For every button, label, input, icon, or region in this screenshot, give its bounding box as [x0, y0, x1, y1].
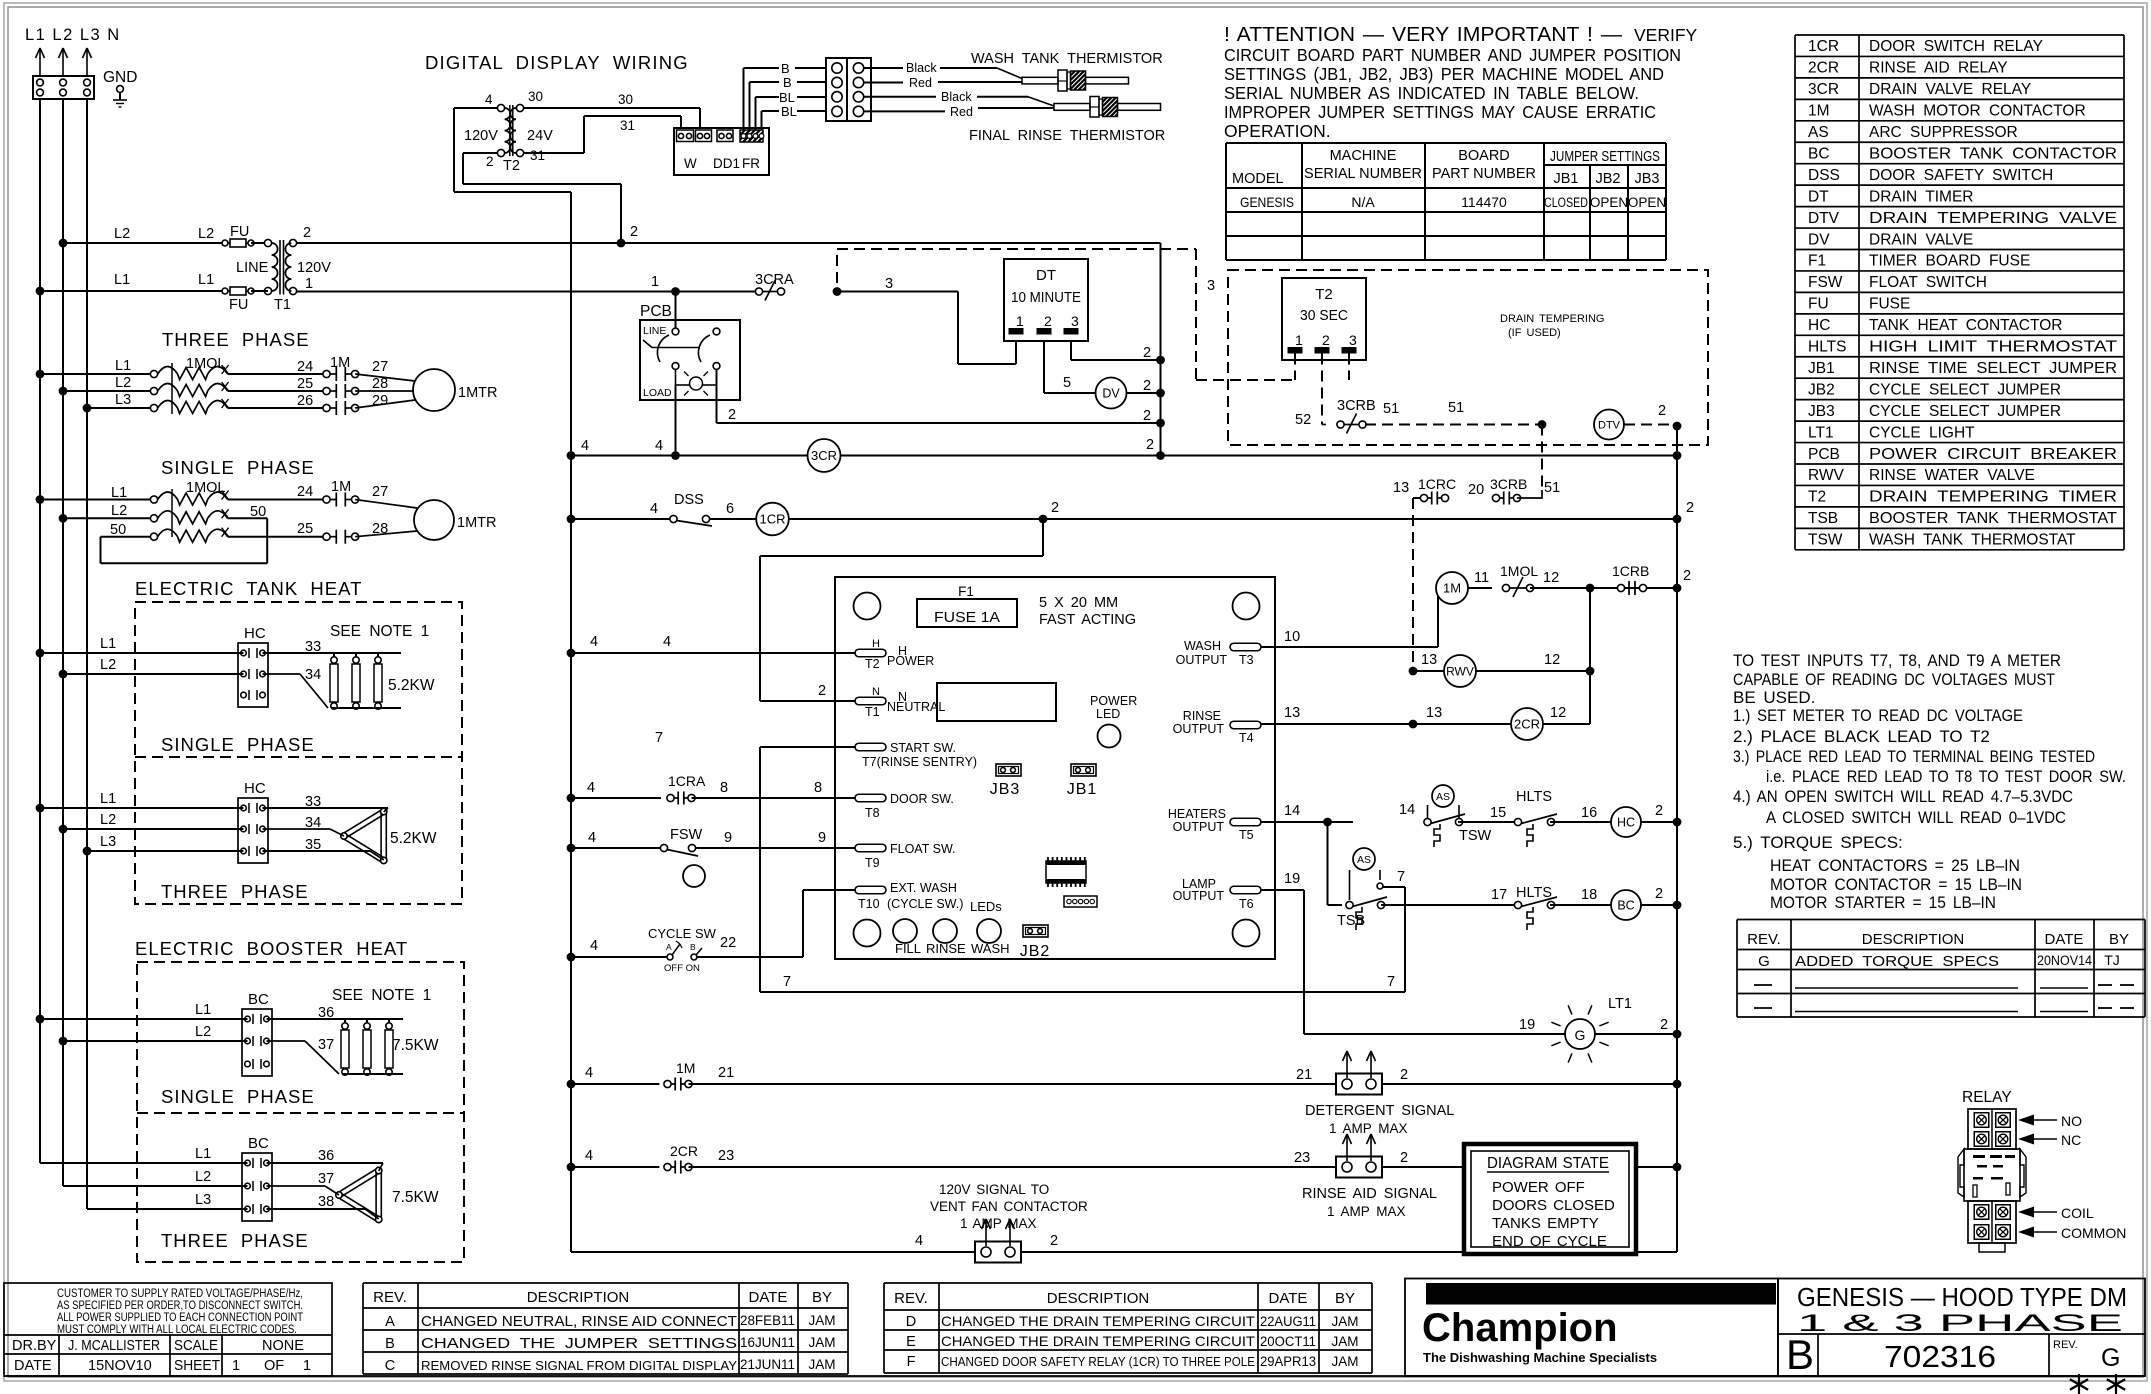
- svg-text:JB3: JB3: [1635, 171, 1660, 187]
- svg-text:AS: AS: [1357, 854, 1371, 866]
- svg-text:T2: T2: [1315, 286, 1333, 303]
- svg-text:J. MCALLISTER: J. MCALLISTER: [68, 1338, 160, 1354]
- svg-text:2CR: 2CR: [670, 1143, 698, 1159]
- svg-text:3: 3: [1207, 278, 1215, 294]
- svg-text:31: 31: [620, 118, 635, 133]
- svg-text:BY: BY: [1335, 1290, 1355, 1307]
- svg-text:OFF ON: OFF ON: [664, 963, 700, 974]
- svg-text:REV.: REV.: [2053, 1339, 2078, 1351]
- svg-text:51: 51: [1383, 401, 1399, 417]
- svg-text:POWER OFF: POWER OFF: [1492, 1179, 1585, 1196]
- svg-text:TSW: TSW: [1459, 828, 1492, 844]
- svg-text:JAM: JAM: [1332, 1354, 1359, 1369]
- svg-text:Red: Red: [909, 76, 932, 90]
- svg-text:(IF USED): (IF USED): [1508, 327, 1561, 339]
- svg-text:CHANGED THE JUMPER SETTINGS: CHANGED THE JUMPER SETTINGS: [421, 1335, 737, 1352]
- svg-text:20: 20: [1468, 482, 1484, 498]
- svg-text:52: 52: [1295, 412, 1311, 428]
- svg-text:RELAY: RELAY: [1962, 1089, 2012, 1106]
- svg-text:CYCLE SELECT JUMPER: CYCLE SELECT JUMPER: [1869, 403, 2061, 420]
- svg-text:2: 2: [1655, 886, 1663, 902]
- svg-text:702316: 702316: [1884, 1339, 1996, 1374]
- svg-text:T7(RINSE SENTRY): T7(RINSE SENTRY): [862, 755, 977, 769]
- svg-text:MOTOR CONTACTOR = 15 LB–IN: MOTOR CONTACTOR = 15 LB–IN: [1770, 875, 2022, 894]
- svg-text:CHANGED DOOR SAFETY RELAY (1CR: CHANGED DOOR SAFETY RELAY (1CR) TO THREE…: [941, 1355, 1255, 1369]
- svg-text:LT1: LT1: [1608, 996, 1632, 1012]
- svg-text:! ATTENTION — VERY IMPORTA: ! ATTENTION — VERY IMPORTANT ! —: [1224, 23, 1623, 46]
- svg-text:JAM: JAM: [809, 1335, 836, 1350]
- svg-text:37: 37: [318, 1037, 334, 1053]
- svg-text:8: 8: [814, 780, 822, 796]
- svg-text:TIMER BOARD FUSE: TIMER BOARD FUSE: [1869, 253, 2030, 270]
- svg-text:A: A: [666, 942, 672, 952]
- svg-text:2: 2: [1146, 437, 1154, 453]
- svg-text:T5: T5: [1239, 828, 1254, 842]
- svg-text:1 AMP MAX: 1 AMP MAX: [960, 1216, 1037, 1231]
- svg-text:F1: F1: [1808, 253, 1826, 270]
- svg-text:4: 4: [590, 938, 598, 954]
- svg-text:4: 4: [585, 1065, 593, 1081]
- svg-text:T2: T2: [865, 657, 880, 671]
- svg-text:10: 10: [1284, 629, 1300, 645]
- svg-text:HC: HC: [244, 625, 266, 642]
- svg-text:DATE: DATE: [1269, 1290, 1308, 1307]
- svg-text:FUSE 1A: FUSE 1A: [934, 609, 1000, 626]
- svg-text:2CR: 2CR: [1514, 717, 1540, 732]
- svg-text:21JUN11: 21JUN11: [740, 1357, 795, 1372]
- svg-text:DATE: DATE: [2045, 931, 2084, 948]
- svg-text:FU: FU: [1808, 296, 1829, 313]
- svg-text:5.) TORQUE SPECS:: 5.) TORQUE SPECS:: [1733, 833, 1903, 852]
- svg-text:COIL: COIL: [2061, 1205, 2094, 1221]
- svg-text:L2: L2: [111, 503, 127, 519]
- svg-text:2: 2: [1655, 803, 1663, 819]
- svg-text:FILL: FILL: [895, 941, 921, 956]
- svg-text:DIGITAL DISPLAY WIRING: DIGITAL DISPLAY WIRING: [425, 52, 689, 73]
- svg-text:B: B: [1786, 1331, 1814, 1378]
- svg-text:TJ: TJ: [2104, 952, 2120, 968]
- svg-text:WASH: WASH: [1184, 639, 1221, 653]
- svg-text:29: 29: [372, 393, 388, 409]
- svg-text:VENT FAN CONTACTOR: VENT FAN CONTACTOR: [930, 1199, 1088, 1214]
- svg-text:24: 24: [297, 359, 313, 375]
- svg-text:ELECTRIC BOOSTER HEAT: ELECTRIC BOOSTER HEAT: [135, 938, 408, 959]
- svg-text:GENESIS: GENESIS: [1240, 194, 1294, 210]
- svg-text:i.e. PLACE RED LEAD TO T8 TO T: i.e. PLACE RED LEAD TO T8 TO TEST DOOR S…: [1766, 767, 2126, 786]
- svg-text:28FEB11: 28FEB11: [740, 1313, 795, 1328]
- svg-text:120V SIGNAL TO: 120V SIGNAL TO: [939, 1182, 1049, 1197]
- svg-text:12: 12: [1550, 705, 1566, 721]
- svg-text:TSW: TSW: [1808, 532, 1843, 549]
- svg-text:L1 L2 L3 N: L1 L2 L3 N: [25, 26, 121, 44]
- svg-text:2: 2: [1400, 1067, 1408, 1083]
- svg-text:2: 2: [1660, 1017, 1668, 1033]
- svg-text:50: 50: [250, 504, 266, 520]
- svg-text:F: F: [907, 1354, 916, 1370]
- svg-text:HEATERS: HEATERS: [1168, 807, 1226, 821]
- svg-text:SINGLE PHASE: SINGLE PHASE: [161, 1086, 315, 1107]
- svg-text:FSW: FSW: [1808, 274, 1843, 291]
- svg-text:BE USED.: BE USED.: [1733, 688, 1815, 707]
- svg-text:26: 26: [297, 393, 313, 409]
- svg-text:T4: T4: [1239, 731, 1254, 745]
- svg-text:PCB: PCB: [1808, 446, 1840, 463]
- svg-text:FAST ACTING: FAST ACTING: [1039, 612, 1136, 628]
- svg-text:27: 27: [372, 359, 388, 375]
- svg-text:SEE NOTE 1: SEE NOTE 1: [330, 623, 429, 640]
- svg-text:L1: L1: [115, 358, 131, 374]
- svg-text:IMPROPER JUMPER SETTINGS MAY C: IMPROPER JUMPER SETTINGS MAY CAUSE ERRAT…: [1224, 102, 1656, 122]
- svg-text:15NOV10: 15NOV10: [88, 1358, 152, 1374]
- svg-text:DR.BY: DR.BY: [12, 1338, 57, 1354]
- svg-text:1M: 1M: [1443, 581, 1461, 596]
- svg-text:OPEN: OPEN: [1628, 195, 1666, 210]
- svg-text:MODEL: MODEL: [1232, 171, 1284, 187]
- svg-text:REV.: REV.: [1747, 931, 1781, 948]
- svg-text:3CR: 3CR: [811, 448, 837, 463]
- svg-text:7.5KW: 7.5KW: [392, 1189, 439, 1206]
- svg-text:1CR: 1CR: [1808, 38, 1839, 55]
- svg-text:L2: L2: [100, 812, 116, 828]
- svg-text:10 MINUTE: 10 MINUTE: [1011, 290, 1081, 306]
- svg-text:THREE PHASE: THREE PHASE: [162, 329, 310, 350]
- svg-text:3CRB: 3CRB: [1490, 476, 1527, 492]
- svg-text:22AUG11: 22AUG11: [1260, 1314, 1316, 1329]
- svg-text:36: 36: [318, 1148, 334, 1164]
- svg-text:120V: 120V: [464, 128, 498, 144]
- svg-text:NO: NO: [2061, 1113, 2082, 1129]
- svg-text:1: 1: [232, 1358, 240, 1374]
- svg-text:JAM: JAM: [1332, 1314, 1359, 1329]
- svg-text:2: 2: [1044, 313, 1052, 329]
- svg-text:START SW.: START SW.: [890, 741, 956, 755]
- svg-text:MOTOR STARTER = 15 LB–IN: MOTOR STARTER = 15 LB–IN: [1770, 893, 1996, 912]
- svg-text:2: 2: [1683, 568, 1691, 584]
- svg-text:E: E: [906, 1334, 916, 1350]
- svg-text:COMMON: COMMON: [2061, 1225, 2126, 1241]
- svg-text:OF: OF: [264, 1358, 284, 1374]
- svg-text:22: 22: [720, 935, 736, 951]
- svg-text:2: 2: [818, 683, 826, 699]
- svg-text:RINSE: RINSE: [926, 941, 966, 956]
- svg-text:1MOL: 1MOL: [1500, 563, 1538, 579]
- svg-text:L3: L3: [115, 392, 131, 408]
- svg-text:5 X 20 MM: 5 X 20 MM: [1039, 595, 1118, 611]
- svg-text:HLTS: HLTS: [1516, 789, 1552, 805]
- svg-text:2: 2: [1322, 332, 1330, 348]
- svg-text:16: 16: [1581, 805, 1597, 821]
- svg-text:ELECTRIC TANK HEAT: ELECTRIC TANK HEAT: [135, 578, 362, 599]
- svg-text:G: G: [1758, 953, 1770, 970]
- svg-text:DESCRIPTION: DESCRIPTION: [1047, 1290, 1150, 1307]
- svg-text:1CRA: 1CRA: [668, 773, 706, 789]
- svg-text:TANK HEAT CONTACTOR: TANK HEAT CONTACTOR: [1869, 317, 2062, 334]
- svg-text:CIRCUIT BOARD PART NUMBER AND: CIRCUIT BOARD PART NUMBER AND JUMPER POS…: [1224, 45, 1681, 65]
- svg-text:1M: 1M: [330, 355, 350, 371]
- svg-text:21: 21: [1296, 1067, 1312, 1083]
- svg-text:12: 12: [1544, 652, 1560, 668]
- svg-text:DETERGENT SIGNAL: DETERGENT SIGNAL: [1305, 1103, 1454, 1119]
- svg-text:TO TEST INPUTS T7, T8, AND T9: TO TEST INPUTS T7, T8, AND T9 A METER: [1733, 651, 2061, 670]
- svg-text:120V: 120V: [297, 260, 331, 276]
- svg-text:REMOVED RINSE SIGNAL FROM DIGI: REMOVED RINSE SIGNAL FROM DIGITAL DISPLA…: [421, 1358, 737, 1373]
- svg-text:T8: T8: [865, 806, 880, 820]
- svg-text:OPERATION.: OPERATION.: [1224, 121, 1331, 141]
- svg-text:BOOSTER TANK THERMOSTAT: BOOSTER TANK THERMOSTAT: [1869, 510, 2118, 527]
- svg-text:50: 50: [110, 522, 126, 538]
- svg-text:JB2: JB2: [1596, 171, 1621, 187]
- svg-text:2: 2: [728, 407, 736, 423]
- svg-text:BOOSTER TANK CONTACTOR: BOOSTER TANK CONTACTOR: [1869, 145, 2117, 162]
- svg-text:L2: L2: [115, 375, 131, 391]
- svg-text:DT: DT: [1808, 188, 1829, 205]
- svg-text:HC: HC: [1808, 317, 1830, 334]
- svg-text:DD1: DD1: [713, 156, 740, 171]
- svg-text:WASH: WASH: [971, 941, 1010, 956]
- svg-text:T6: T6: [1239, 897, 1254, 911]
- svg-text:L1: L1: [114, 272, 130, 288]
- svg-text:3.) PLACE RED LEAD TO TERMINA: 3.) PLACE RED LEAD TO TERMINAL BEING TES…: [1733, 747, 2095, 766]
- svg-text:JAM: JAM: [809, 1357, 836, 1372]
- svg-text:A CLOSED SWITCH WILL READ 0–1V: A CLOSED SWITCH WILL READ 0–1VDC: [1766, 808, 2066, 827]
- svg-text:25: 25: [297, 376, 313, 392]
- svg-text:34: 34: [305, 667, 321, 683]
- svg-text:WASH TANK THERMISTOR: WASH TANK THERMISTOR: [971, 51, 1163, 67]
- svg-text:12: 12: [1543, 570, 1559, 586]
- svg-text:51: 51: [1448, 400, 1464, 416]
- svg-text:4.) AN OPEN SWITCH WILL READ: 4.) AN OPEN SWITCH WILL READ 4.7–5.3VDC: [1733, 787, 2073, 806]
- svg-text:4: 4: [581, 438, 589, 454]
- svg-text:FU: FU: [230, 224, 249, 240]
- svg-text:AS: AS: [1808, 124, 1829, 141]
- svg-text:7: 7: [1397, 869, 1405, 885]
- svg-text:OUTPUT: OUTPUT: [1173, 722, 1225, 736]
- svg-text:POWER: POWER: [887, 654, 934, 668]
- svg-text:A: A: [385, 1314, 395, 1330]
- svg-text:BL: BL: [779, 90, 795, 105]
- svg-text:1M: 1M: [1808, 103, 1830, 120]
- svg-text:4: 4: [585, 1148, 593, 1164]
- svg-text:The Dishwashing Machine Specia: The Dishwashing Machine Specialists: [1423, 1350, 1657, 1365]
- svg-text:DRAIN TEMPERING: DRAIN TEMPERING: [1500, 313, 1604, 325]
- svg-text:JB3: JB3: [1808, 403, 1835, 420]
- svg-text:JAM: JAM: [1332, 1334, 1359, 1349]
- svg-text:LINE: LINE: [236, 260, 269, 276]
- svg-text:SINGLE PHASE: SINGLE PHASE: [161, 457, 315, 478]
- svg-text:30 SEC: 30 SEC: [1300, 308, 1348, 324]
- svg-text:1CRB: 1CRB: [1612, 563, 1649, 579]
- svg-text:4: 4: [587, 780, 595, 796]
- svg-text:TSB: TSB: [1808, 510, 1838, 527]
- svg-text:RINSE AID RELAY: RINSE AID RELAY: [1869, 60, 2008, 77]
- svg-text:5: 5: [1063, 375, 1071, 391]
- svg-text:FU: FU: [229, 297, 248, 313]
- svg-text:19: 19: [1519, 1017, 1535, 1033]
- svg-text:2CR: 2CR: [1808, 60, 1839, 77]
- svg-text:7: 7: [655, 730, 663, 746]
- svg-text:2: 2: [303, 225, 311, 241]
- svg-text:1: 1: [303, 1358, 311, 1374]
- svg-text:RINSE AID SIGNAL: RINSE AID SIGNAL: [1302, 1186, 1437, 1202]
- svg-text:GENESIS — HOOD TYPE DM: GENESIS — HOOD TYPE DM: [1797, 1282, 2127, 1312]
- svg-text:6: 6: [726, 501, 734, 517]
- svg-text:FSW: FSW: [670, 827, 703, 843]
- svg-text:F1: F1: [958, 584, 974, 599]
- svg-text:CLOSED: CLOSED: [1544, 195, 1588, 210]
- svg-text:PART NUMBER: PART NUMBER: [1432, 166, 1536, 182]
- svg-text:FINAL RINSE THERMISTOR: FINAL RINSE THERMISTOR: [969, 128, 1165, 144]
- svg-text:31: 31: [530, 148, 545, 163]
- svg-text:VERIFY: VERIFY: [1634, 25, 1698, 45]
- svg-text:2: 2: [1143, 345, 1151, 361]
- svg-text:L3: L3: [100, 834, 116, 850]
- svg-text:1: 1: [305, 276, 313, 292]
- svg-text:B: B: [783, 75, 792, 90]
- svg-text:1: 1: [1295, 332, 1303, 348]
- svg-text:3: 3: [1071, 313, 1079, 329]
- svg-text:14: 14: [1284, 803, 1300, 819]
- svg-text:24: 24: [297, 484, 313, 500]
- svg-text:GND: GND: [103, 69, 137, 86]
- svg-text:1: 1: [1016, 313, 1024, 329]
- svg-text:L1: L1: [111, 485, 127, 501]
- svg-text:1M: 1M: [676, 1060, 695, 1076]
- svg-text:OUTPUT: OUTPUT: [1176, 653, 1228, 667]
- svg-text:3CRB: 3CRB: [1337, 398, 1376, 414]
- svg-text:CYCLE LIGHT: CYCLE LIGHT: [1869, 424, 1975, 441]
- svg-text:POWER CIRCUIT BREAKER: POWER CIRCUIT BREAKER: [1869, 446, 2117, 463]
- svg-text:T1: T1: [274, 297, 291, 313]
- svg-text:L3: L3: [195, 1192, 211, 1208]
- svg-text:DSS: DSS: [1808, 167, 1840, 184]
- svg-text:T3: T3: [1239, 653, 1254, 667]
- svg-text:30: 30: [528, 89, 543, 104]
- svg-text:G: G: [2101, 1344, 2120, 1372]
- svg-text:SINGLE PHASE: SINGLE PHASE: [161, 734, 315, 755]
- svg-text:1MOL: 1MOL: [186, 480, 226, 496]
- svg-text:3: 3: [1349, 332, 1357, 348]
- svg-text:RWV: RWV: [1808, 467, 1845, 484]
- svg-text:B: B: [690, 942, 696, 952]
- svg-text:20OCT11: 20OCT11: [1260, 1334, 1316, 1349]
- svg-text:11: 11: [1474, 570, 1489, 586]
- svg-text:HC: HC: [1617, 816, 1635, 830]
- svg-text:DATE: DATE: [14, 1358, 52, 1374]
- svg-text:T1: T1: [865, 705, 880, 719]
- svg-text:4: 4: [485, 92, 493, 107]
- svg-text:30: 30: [618, 92, 633, 107]
- svg-text:5.2KW: 5.2KW: [390, 830, 437, 847]
- svg-text:24V: 24V: [527, 128, 553, 144]
- svg-text:LT1: LT1: [1808, 424, 1834, 441]
- svg-text:ARC SUPPRESSOR: ARC SUPPRESSOR: [1869, 124, 2018, 141]
- svg-text:OUTPUT: OUTPUT: [1173, 820, 1225, 834]
- svg-text:1 AMP MAX: 1 AMP MAX: [1327, 1204, 1406, 1219]
- svg-text:L1: L1: [195, 1002, 211, 1018]
- svg-text:9: 9: [724, 830, 732, 846]
- svg-text:BL: BL: [781, 104, 797, 119]
- svg-text:CHANGED NEUTRAL, RINSE AID CON: CHANGED NEUTRAL, RINSE AID CONNECT: [421, 1314, 737, 1330]
- svg-text:2: 2: [1051, 500, 1059, 516]
- svg-text:TSB: TSB: [1337, 913, 1365, 929]
- svg-text:4: 4: [588, 830, 596, 846]
- svg-text:JUMPER SETTINGS: JUMPER SETTINGS: [1550, 149, 1660, 165]
- svg-text:DRAIN VALVE: DRAIN VALVE: [1869, 231, 1973, 248]
- svg-text:T10: T10: [858, 897, 880, 911]
- svg-text:W: W: [684, 156, 697, 171]
- svg-text:13: 13: [1421, 652, 1437, 668]
- svg-text:JB1: JB1: [1808, 360, 1835, 377]
- svg-text:DRAIN TIMER: DRAIN TIMER: [1869, 188, 1973, 205]
- svg-text:BY: BY: [2109, 931, 2129, 948]
- svg-text:5.2KW: 5.2KW: [388, 677, 435, 694]
- svg-text:DATE: DATE: [749, 1289, 788, 1306]
- svg-text:LINE: LINE: [643, 325, 666, 337]
- svg-text:DRAIN TEMPERING VALVE: DRAIN TEMPERING VALVE: [1869, 210, 2117, 227]
- svg-text:16JUN11: 16JUN11: [740, 1335, 795, 1350]
- svg-text:POWER: POWER: [1090, 694, 1137, 708]
- svg-text:21: 21: [718, 1065, 734, 1081]
- svg-text:2: 2: [1400, 1150, 1408, 1166]
- svg-text:SERIAL NUMBER: SERIAL NUMBER: [1304, 166, 1422, 182]
- svg-text:2: 2: [486, 154, 494, 169]
- svg-text:1 & 3 PHASE: 1 & 3 PHASE: [1797, 1310, 2123, 1337]
- svg-text:3CRA: 3CRA: [755, 272, 794, 288]
- svg-text:1 AMP MAX: 1 AMP MAX: [1329, 1121, 1408, 1136]
- svg-text:L2: L2: [195, 1169, 211, 1185]
- svg-text:REV.: REV.: [894, 1290, 928, 1307]
- svg-text:LEDs: LEDs: [970, 899, 1002, 914]
- svg-text:2.) PLACE BLACK LEAD TO T2: 2.) PLACE BLACK LEAD TO T2: [1733, 727, 1990, 746]
- svg-text:JAM: JAM: [809, 1313, 836, 1328]
- svg-text:HC: HC: [244, 780, 266, 797]
- svg-text:2: 2: [1686, 500, 1694, 516]
- svg-text:4: 4: [650, 501, 658, 517]
- svg-text:2: 2: [1658, 403, 1666, 419]
- svg-text:NC: NC: [2061, 1132, 2081, 1148]
- svg-text:DOOR SAFETY SWITCH: DOOR SAFETY SWITCH: [1869, 167, 2053, 184]
- svg-text:DOOR SWITCH RELAY: DOOR SWITCH RELAY: [1869, 38, 2043, 55]
- svg-text:Black: Black: [941, 90, 972, 104]
- svg-text:1: 1: [651, 274, 659, 290]
- svg-text:BC: BC: [248, 1135, 269, 1152]
- svg-text:1CRC: 1CRC: [1418, 476, 1456, 492]
- svg-text:OPEN: OPEN: [1590, 195, 1628, 210]
- svg-text:15: 15: [1490, 805, 1506, 821]
- svg-text:JB3: JB3: [990, 781, 1021, 798]
- svg-text:DIAGRAM STATE: DIAGRAM STATE: [1487, 1155, 1609, 1172]
- svg-text:2: 2: [630, 224, 638, 240]
- svg-text:DV: DV: [1808, 231, 1830, 248]
- svg-text:RINSE WATER VALVE: RINSE WATER VALVE: [1869, 467, 2035, 484]
- svg-text:Black: Black: [906, 61, 937, 75]
- svg-text:4: 4: [655, 438, 663, 454]
- svg-text:N: N: [872, 686, 880, 698]
- svg-text:LOAD: LOAD: [643, 387, 672, 399]
- svg-text:JB2: JB2: [1808, 381, 1835, 398]
- svg-text:THREE PHASE: THREE PHASE: [161, 1230, 309, 1251]
- svg-text:RINSE TIME SELECT JUMPER: RINSE TIME SELECT JUMPER: [1869, 360, 2117, 377]
- svg-text:FLOAT SWITCH: FLOAT SWITCH: [1869, 274, 1987, 291]
- svg-text:Champion: Champion: [1422, 1306, 1618, 1350]
- svg-text:9: 9: [818, 830, 826, 846]
- svg-text:OUTPUT: OUTPUT: [1173, 889, 1225, 903]
- svg-text:T2: T2: [503, 158, 520, 174]
- svg-text:FR: FR: [742, 156, 760, 171]
- svg-text:ADDED TORQUE SPECS: ADDED TORQUE SPECS: [1795, 953, 1999, 970]
- svg-text:7.5KW: 7.5KW: [392, 1037, 439, 1054]
- svg-text:2: 2: [1143, 408, 1151, 424]
